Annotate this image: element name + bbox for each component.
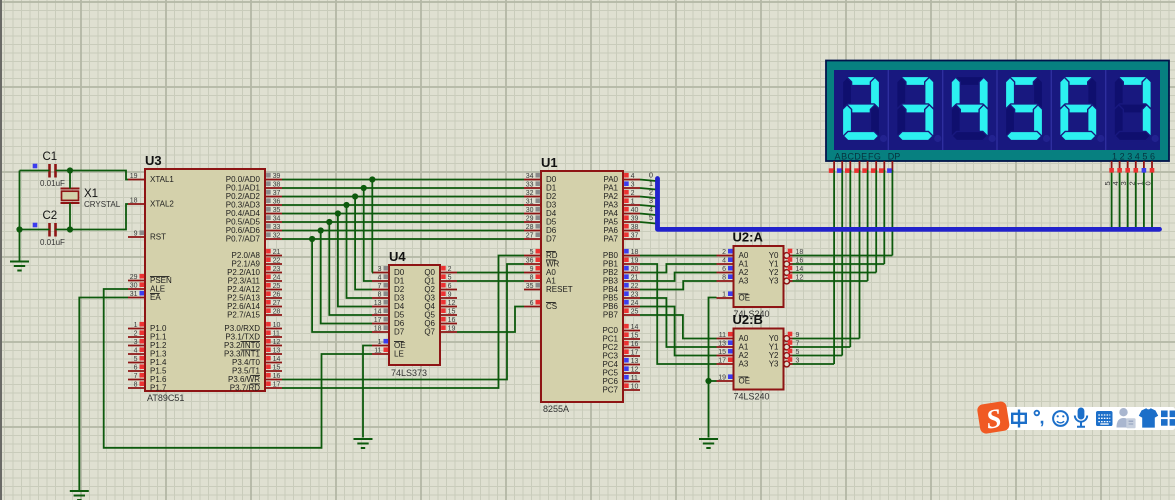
svg-text:31: 31 [130, 291, 138, 298]
display segment pin B wire [841, 161, 843, 172]
U3 pin 1 P1.0 [128, 328, 145, 330]
svg-text:U2:B: U2:B [733, 312, 763, 327]
U4 pin 13 D4 [372, 306, 389, 308]
U4 pin 17 D6 [372, 323, 389, 325]
U1 pin 4 PA0 [623, 179, 640, 181]
display digit 5 showing 6 [1061, 76, 1096, 85]
icon smiley [1053, 411, 1068, 426]
display digit pin 4 wire [1135, 161, 1137, 172]
U3 pin 6 P1.5 [128, 370, 145, 372]
U4 pin 14 D5 [372, 314, 389, 316]
U1 pin 14 PC0 [623, 330, 640, 332]
U3 pin 30 ALE [128, 288, 145, 290]
wire U4 Q1 to U1 A1 [457, 280, 524, 282]
icon person [1117, 408, 1136, 428]
U1 pin 18 PB0 [623, 255, 640, 257]
svg-text:74LS373: 74LS373 [391, 368, 427, 378]
display digit 6 decimal point [1152, 135, 1159, 142]
svg-text:5: 5 [448, 275, 452, 282]
U3 pin 19 XTAL1 [128, 179, 145, 181]
svg-text:22: 22 [631, 283, 639, 290]
U4 pin 7 D2 [372, 289, 389, 291]
junction P0.6 [318, 227, 324, 233]
wire U4 Q0 to U1 A0 [457, 272, 524, 274]
display digit 4 showing 5 [1006, 76, 1041, 85]
wire tap P0.7 to U4 D7 [312, 239, 372, 332]
svg-text:6: 6 [134, 365, 138, 372]
svg-text:36: 36 [526, 258, 534, 265]
svg-text:18: 18 [374, 326, 382, 333]
svg-text:35: 35 [273, 207, 281, 214]
buffer U2:B 74LS240 body [734, 329, 784, 390]
U3 pin 34 P0.5/AD5 [265, 221, 282, 223]
crystal X1 [61, 188, 80, 190]
svg-text:19: 19 [130, 173, 138, 180]
U1 pin 35 RESET [524, 289, 541, 291]
svg-text:11: 11 [374, 348, 381, 355]
svg-text:17: 17 [374, 317, 382, 324]
svg-text:1: 1 [631, 199, 635, 206]
svg-text:32: 32 [526, 190, 534, 197]
svg-text:18: 18 [631, 249, 639, 256]
U3 pin 5 P1.4 [128, 362, 145, 364]
icon keyboard [1096, 411, 1113, 426]
svg-text:4: 4 [1135, 152, 1140, 162]
svg-text:17: 17 [718, 358, 726, 365]
U2:B input pin 17 A3 [717, 363, 734, 365]
U3 pin 11 P3.1/TXD [265, 336, 282, 338]
wire tap P0.0 to U4 D0 [371, 180, 373, 273]
U1 pin 6 CS [524, 306, 541, 308]
U2:A output pin 18 Y0 [784, 253, 790, 259]
svg-text:D7: D7 [394, 328, 405, 337]
svg-text:11: 11 [273, 331, 280, 338]
U1 pin 1 PA3 [623, 204, 640, 206]
svg-text:16: 16 [448, 317, 456, 324]
U2:A OE pin 1 [717, 297, 734, 299]
junction P0.5 [326, 219, 332, 225]
U4 pin 16 Q6 [440, 323, 457, 325]
svg-text:40: 40 [631, 207, 639, 214]
svg-text:7: 7 [134, 373, 138, 380]
wire P0.6 to D6 [282, 230, 524, 232]
display segment pin G wire [883, 161, 885, 172]
U3 pin 4 P1.3 [128, 353, 145, 355]
U1 pin 24 PB6 [623, 306, 640, 308]
svg-text:AT89C51: AT89C51 [147, 393, 184, 403]
display digit pin 6 wire [1151, 161, 1153, 172]
svg-text:4: 4 [134, 348, 138, 355]
U3 pin 33 P0.6/AD6 [265, 230, 282, 232]
U3 pin 3 P1.2 [128, 345, 145, 347]
U1 pin 12 PC5 [623, 372, 640, 374]
wire tap P0.1 to U4 D1 [364, 188, 372, 281]
wire C2 left to rail [20, 229, 50, 231]
U3 pin 16 P3.6/WR [265, 379, 282, 381]
U2:B output pin 5 Y2 [784, 353, 790, 359]
svg-text:U4: U4 [389, 249, 406, 264]
U1 pin 34 D0 [524, 179, 541, 181]
U3 pin 25 P2.4/A12 [265, 289, 282, 291]
svg-text:74LS240: 74LS240 [734, 392, 770, 402]
display digit 2 showing 3 [898, 76, 933, 85]
junction P0.1 [361, 185, 367, 191]
svg-text:28: 28 [526, 224, 534, 231]
wire P0.5 to D5 [282, 221, 524, 223]
U4 pin 2 Q0 [440, 272, 457, 274]
icon punctuation [1035, 411, 1040, 416]
svg-text:RESET: RESET [546, 285, 573, 294]
svg-text:1: 1 [134, 322, 138, 329]
U3 pin 2 P1.1 [128, 336, 145, 338]
U3 pin 36 P0.3/AD3 [265, 204, 282, 206]
U4 pin 12 Q4 [440, 306, 457, 308]
junction crystal bottom [67, 226, 73, 232]
ground for U4 OE [354, 438, 373, 440]
svg-text:CS: CS [546, 302, 557, 311]
display digit 3 showing 4 [952, 76, 987, 85]
wire tap P0.2 to U4 D2 [355, 197, 372, 290]
U2:A output pin 14 Y2 [784, 270, 790, 276]
svg-text:18: 18 [130, 198, 138, 205]
U3 pin 24 P2.3/A11 [265, 280, 282, 282]
svg-text:32: 32 [273, 233, 281, 240]
U1 pin 8 A1 [524, 280, 541, 282]
svg-text:34: 34 [273, 216, 281, 223]
svg-text:3: 3 [1127, 152, 1132, 162]
svg-text:A3: A3 [739, 360, 749, 369]
svg-text:U3: U3 [145, 153, 162, 168]
svg-text:15: 15 [273, 365, 281, 372]
junction rail C2 [16, 226, 22, 232]
icon zhong [1012, 410, 1026, 428]
svg-text:24: 24 [631, 300, 639, 307]
svg-text:A: A [834, 152, 840, 162]
U1 pin 28 D6 [524, 230, 541, 232]
U3 pin 32 P0.7/AD7 [265, 238, 282, 240]
mcu U3 AT89C51 body [145, 169, 265, 391]
svg-text:U1: U1 [541, 155, 558, 170]
U4 pin 5 Q1 [440, 280, 457, 282]
svg-text:25: 25 [631, 309, 639, 316]
svg-text:D7: D7 [546, 235, 557, 244]
U2:B input pin 11 A0 [717, 338, 734, 340]
ground for EA [70, 490, 89, 492]
svg-text:U2:A: U2:A [733, 230, 764, 245]
wire P0.0 to D0 [282, 179, 524, 181]
display digit pin 3 wire [1127, 161, 1129, 172]
U4 pin 6 Q2 [440, 289, 457, 291]
display segment pin DP wire [891, 161, 893, 172]
svg-text:B: B [841, 152, 847, 162]
wire P0.3 to D3 [282, 204, 524, 206]
display digit 6 showing 7 [1115, 76, 1150, 85]
svg-text:19: 19 [631, 258, 639, 265]
svg-text:11: 11 [719, 332, 726, 339]
svg-text:4: 4 [722, 258, 726, 265]
svg-text:16: 16 [273, 373, 281, 380]
svg-text:19: 19 [718, 375, 726, 382]
svg-text:21: 21 [273, 249, 281, 256]
svg-text:2: 2 [1120, 152, 1125, 162]
wire U4 Q7 to U1 CS [457, 307, 524, 333]
U3 pin 26 P2.5/A13 [265, 297, 282, 299]
svg-text:23: 23 [273, 266, 281, 273]
capacitor C1 [48, 164, 51, 178]
display digit 5 decimal point [1097, 135, 1104, 142]
svg-text:P0.7/AD7: P0.7/AD7 [226, 235, 261, 244]
latch U4 74LS373 body [389, 265, 440, 365]
U1 pin 15 PC1 [623, 338, 640, 340]
svg-text:12: 12 [448, 300, 456, 307]
U1 pin 25 PB7 [623, 314, 640, 316]
U1 pin 13 PC4 [623, 364, 640, 366]
bus PA to display digits [658, 179, 1160, 230]
wire left rail down to ground [19, 171, 21, 262]
svg-text:11: 11 [631, 375, 638, 382]
wire P0.1 to D1 [282, 187, 524, 189]
svg-text:1: 1 [1112, 152, 1117, 162]
svg-text:15: 15 [718, 349, 726, 356]
U1 pin 3 PA1 [623, 187, 640, 189]
svg-text:8: 8 [530, 275, 534, 282]
U3 pin 38 P0.1/AD1 [265, 187, 282, 189]
wire EA to ground [79, 298, 128, 491]
svg-text:12: 12 [273, 339, 281, 346]
wire PA4 to bus [640, 214, 656, 216]
wire tap P0.5 to U4 D5 [329, 222, 372, 315]
svg-text:5: 5 [530, 249, 534, 256]
U4 pin 11 LE [372, 353, 389, 355]
U3 pin 37 P0.2/AD2 [265, 196, 282, 198]
display digit 1 decimal point [880, 135, 887, 142]
display digit 1 showing 2 [843, 76, 878, 85]
display digit area [834, 70, 1160, 150]
wire tap P0.6 to U4 D6 [321, 231, 372, 324]
wire tap P0.4 to U4 D4 [338, 214, 372, 307]
svg-text:8: 8 [722, 275, 726, 282]
svg-text:10: 10 [631, 384, 639, 391]
wire PB2 to U2:A A1 [640, 264, 717, 273]
svg-text:34: 34 [526, 173, 534, 180]
svg-text:6: 6 [530, 300, 534, 307]
svg-text:31: 31 [526, 199, 534, 206]
display segment pin C wire [849, 161, 851, 172]
net indicator C2 [33, 223, 38, 228]
U4 pin 1 OE [372, 345, 389, 347]
wire PB0 to U2:A A0 [640, 255, 717, 257]
display digit 2 decimal point [934, 135, 941, 142]
window left edge [0, 0, 2, 500]
svg-text:CRYSTAL: CRYSTAL [84, 200, 121, 209]
display cell separators [888, 70, 1105, 150]
svg-text:2: 2 [722, 249, 726, 256]
U1 pin 20 PB2 [623, 272, 640, 274]
display digit pin 1 wire [1111, 161, 1113, 172]
svg-text:29: 29 [130, 274, 138, 281]
ground for U2 OE [699, 438, 718, 440]
svg-text:38: 38 [631, 224, 639, 231]
U1 pin 31 D3 [524, 204, 541, 206]
wire crystal top branch [69, 171, 71, 189]
svg-text:5: 5 [1142, 152, 1147, 162]
svg-text:5: 5 [649, 213, 653, 222]
U2:B OE pin 19 [717, 380, 734, 382]
U1 pin 5 RD [524, 255, 541, 257]
svg-text:G: G [874, 152, 881, 162]
U3 pin 31 EA [128, 297, 145, 299]
U3 pin 14 P3.4/T0 [265, 362, 282, 364]
U2:A output pin 16 Y1 [784, 261, 790, 267]
wire C1 left to rail [20, 170, 50, 172]
svg-text:21: 21 [631, 275, 639, 282]
svg-text:8: 8 [134, 382, 138, 389]
svg-text:3: 3 [134, 339, 138, 346]
ground for C1 C2 [10, 261, 29, 263]
wire PB4 to U2:A A3 [640, 281, 717, 290]
U2:B input pin 15 A2 [717, 355, 734, 357]
svg-text:5: 5 [134, 356, 138, 363]
svg-text:Q7: Q7 [424, 328, 435, 337]
wire P0.7 to D7 [282, 238, 524, 240]
wire PB1 to U2:B A3 [640, 264, 717, 364]
svg-text:Y3: Y3 [769, 360, 779, 369]
U2:B input pin 13 A1 [717, 346, 734, 348]
svg-text:36: 36 [273, 199, 281, 206]
svg-text:27: 27 [526, 233, 534, 240]
U1 pin 37 PA7 [623, 238, 640, 240]
wire U2:A OE to U2:B OE and ground [709, 298, 717, 438]
svg-text:Y3: Y3 [769, 277, 779, 286]
svg-text:8255A: 8255A [543, 404, 569, 414]
U1 pin 23 PB5 [623, 297, 640, 299]
U3 pin 17 P3.7/RD [265, 387, 282, 389]
U3 pin 9 RST [128, 236, 145, 238]
U4 pin 18 D7 [372, 331, 389, 333]
display 7SEG-MPX6 frame [826, 61, 1169, 162]
wire U1 RD to U3 P3.7 [282, 256, 524, 389]
junction P0.3 [343, 202, 349, 208]
svg-text:9: 9 [134, 231, 138, 238]
svg-text:2: 2 [631, 190, 635, 197]
svg-text:P1.7: P1.7 [150, 384, 167, 393]
svg-text:X1: X1 [84, 188, 98, 200]
U3 pin 39 P0.0/AD0 [265, 179, 282, 181]
svg-text:23: 23 [631, 292, 639, 299]
wire C2 right to XTAL2 [56, 204, 129, 230]
U2:B output pin 3 Y3 [784, 361, 790, 367]
sogou logo [976, 401, 1010, 436]
wire PA2 to bus [640, 197, 656, 199]
svg-text:38: 38 [273, 182, 281, 189]
svg-text:37: 37 [273, 190, 281, 197]
U4 pin 4 D1 [372, 280, 389, 282]
U1 pin 36 WR [524, 263, 541, 265]
wire tap P0.3 to U4 D3 [347, 205, 373, 298]
U1 pin 16 PC2 [623, 347, 640, 349]
svg-text:14: 14 [273, 356, 281, 363]
svg-text:33: 33 [273, 224, 281, 231]
svg-text:7: 7 [378, 283, 382, 290]
net indicator C1 [33, 164, 38, 169]
svg-text:17: 17 [631, 350, 639, 357]
svg-text:15: 15 [448, 309, 456, 316]
U1 pin 11 PC6 [623, 381, 640, 383]
U1 pin 21 PB3 [623, 280, 640, 282]
svg-text:PB7: PB7 [603, 311, 619, 320]
U3 pin 7 P1.6 [128, 379, 145, 381]
U2:A input pin 6 A2 [717, 272, 734, 274]
svg-text:DP: DP [888, 152, 901, 162]
display segment pin F wire [875, 161, 877, 172]
U1 pin 39 PA5 [623, 221, 640, 223]
U2:A input pin 4 A1 [717, 263, 734, 265]
U1 pin 22 PB4 [623, 289, 640, 291]
U2:B output pin 7 Y1 [784, 344, 790, 350]
svg-text:6: 6 [1150, 152, 1155, 162]
wire U4 OE to ground [363, 346, 372, 438]
junction P0.4 [335, 210, 341, 216]
svg-text:17: 17 [273, 382, 281, 389]
svg-text:P2.7/A15: P2.7/A15 [227, 311, 260, 320]
U1 pin 38 PA6 [623, 230, 640, 232]
display segment pin A wire [833, 161, 835, 172]
U3 pin 28 P2.7/A15 [265, 314, 282, 316]
svg-text:0.01uF: 0.01uF [40, 238, 65, 247]
U3 pin 23 P2.2/A10 [265, 272, 282, 274]
U3 pin 8 P1.7 [128, 387, 145, 389]
wire P0.2 to D2 [282, 196, 524, 198]
svg-text:24: 24 [273, 275, 281, 282]
U3 pin 12 P3.2/INT0 [265, 345, 282, 347]
U2:B output pin 9 Y0 [784, 336, 790, 342]
svg-text:30: 30 [130, 283, 138, 290]
icon microphone [1078, 408, 1085, 420]
wire PB5 to U2:B A1 [640, 298, 717, 347]
sogou input toolbar [976, 401, 1175, 436]
svg-text:25: 25 [273, 283, 281, 290]
U1 pin 17 PC3 [623, 355, 640, 357]
svg-text:10: 10 [273, 322, 281, 329]
U3 pin 22 P2.1/A9 [265, 263, 282, 265]
wire C1 right to XTAL1 [56, 171, 129, 180]
svg-text:20: 20 [631, 266, 639, 273]
U4 pin 3 D0 [372, 272, 389, 274]
display digit pin 2 wire [1119, 161, 1121, 172]
svg-text:PC7: PC7 [602, 386, 618, 395]
ppi U1 8255A body [541, 171, 623, 402]
wire PB3 to U2:A A2 [640, 273, 717, 282]
U2:A input pin 8 A3 [717, 280, 734, 282]
svg-text:2: 2 [134, 331, 138, 338]
svg-text:EA: EA [150, 293, 161, 302]
svg-text:16: 16 [631, 341, 639, 348]
U1 pin 33 D1 [524, 187, 541, 189]
svg-text:33: 33 [526, 182, 534, 189]
junction P0.2 [352, 193, 358, 199]
svg-text:C1: C1 [43, 151, 58, 163]
display digit pin 5 wire [1143, 161, 1145, 172]
wire PA3 to bus [640, 205, 656, 207]
svg-text:13: 13 [718, 341, 726, 348]
svg-text:9: 9 [448, 292, 452, 299]
svg-text:OE: OE [739, 294, 751, 303]
wire ALE to U4 LE [104, 289, 372, 448]
U1 pin 27 D7 [524, 238, 541, 240]
U1 pin 29 D5 [524, 221, 541, 223]
svg-text:0.01uF: 0.01uF [40, 179, 65, 188]
svg-text:4: 4 [631, 173, 635, 180]
